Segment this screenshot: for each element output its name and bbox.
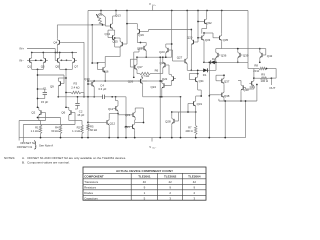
wire Q19 emitter (136, 35, 138, 42)
resistor R4b (59, 125, 62, 134)
transistor Q39 (239, 53, 241, 57)
wire Q19 base (142, 30, 149, 32)
transistor Q11 (115, 106, 117, 110)
wire Q5 emitter (59, 64, 61, 69)
wire Q6 base bus (73, 112, 75, 114)
svg-text:Q33: Q33 (205, 38, 211, 42)
transistor Q26 (140, 79, 142, 83)
transistor Q2 (40, 110, 42, 114)
transistor Q41 (251, 81, 253, 85)
transistor Q3 (45, 58, 47, 62)
wire Q12 emitter (108, 126, 110, 137)
wire mid bus y81 (88, 80, 147, 82)
svg-text:R4: R4 (55, 126, 59, 130)
resistor R9 (260, 77, 268, 80)
wire R4b top (60, 118, 62, 125)
svg-text:Q14: Q14 (105, 32, 111, 36)
svg-text:Q39: Q39 (243, 53, 249, 57)
wire Q20 collector (162, 57, 164, 61)
svg-text:COMPONENT: COMPONENT (84, 174, 104, 178)
wire Q3 top (42, 53, 44, 57)
node rail junction (197, 10, 199, 12)
wire Q35 base (213, 37, 217, 39)
svg-text:R2: R2 (77, 126, 81, 130)
svg-text:Q1: Q1 (27, 64, 31, 68)
node rail junction (126, 10, 128, 12)
wire Q40 collector (240, 81, 242, 84)
wire Q10 base (88, 83, 90, 85)
svg-text:Capacitors: Capacitors (84, 197, 98, 201)
svg-text:Q16: Q16 (103, 69, 109, 73)
resistor R1 (39, 125, 42, 134)
svg-text:IN−: IN− (19, 58, 24, 62)
wire x171 riser (171, 11, 173, 45)
node input dots (35, 59, 37, 61)
svg-text:R1: R1 (35, 126, 39, 130)
svg-text:Q9: Q9 (50, 85, 54, 89)
svg-text:Q38: Q38 (224, 94, 230, 98)
wire Q31 collector (195, 96, 197, 99)
node rail junction (171, 10, 173, 12)
wire offset riser 2 (22, 125, 24, 143)
wire offset brace (34, 140, 36, 149)
wire Q29b emitter (190, 46, 192, 70)
wire offset riser 1 (18, 121, 20, 141)
wire Q29b collector (190, 30, 192, 38)
node OUT (270, 78, 272, 85)
power VCC- label (151, 138, 153, 142)
wire Q15 emitter (119, 48, 121, 52)
node rail junction (115, 10, 117, 12)
wire x126 drop (125, 97, 127, 138)
wire Q18 emitter (145, 52, 147, 57)
node rail junction (221, 10, 223, 12)
svg-text:D1: D1 (203, 73, 207, 77)
svg-text:1: 1 (144, 191, 146, 195)
svg-text:R9: R9 (261, 73, 265, 77)
wire Q5Q7 join (60, 68, 73, 70)
wire Q22 collector (170, 73, 172, 75)
capacitor C4 (102, 95, 104, 99)
wire Q34 loop (189, 79, 193, 81)
svg-text:Q21: Q21 (125, 113, 131, 117)
wire C1 top (44, 89, 46, 91)
svg-text:2.4 kΩ: 2.4 kΩ (71, 86, 79, 90)
wire Q12 collector (108, 114, 110, 119)
wire Q28 base (176, 120, 178, 122)
wire Q23 emitter (165, 54, 167, 57)
wire Q18 base (139, 47, 142, 49)
wire x133 drop (133, 52, 135, 77)
resistor R7 (194, 126, 197, 135)
svg-text:1.1 kΩ: 1.1 kΩ (31, 129, 39, 133)
transistor Q42 (261, 53, 263, 57)
transistor Q4 (59, 40, 61, 44)
wire y63 bus (92, 62, 97, 64)
wire Q1 top (31, 53, 33, 57)
svg-text:R8: R8 (254, 63, 258, 67)
wire Q36 emitter (215, 59, 217, 62)
svg-text:Q37: Q37 (224, 79, 230, 83)
wire bottom box (219, 100, 257, 102)
wire diode bus lower (187, 69, 216, 71)
wire Q41 emitter (253, 87, 255, 89)
wire Q11 collector (117, 101, 119, 105)
wire Q38 emitter (223, 99, 225, 101)
wire Q3 emitter (42, 64, 44, 69)
wire Q9 base (63, 83, 64, 85)
svg-text:R5: R5 (90, 124, 94, 128)
wire Q42 loop (264, 54, 265, 56)
svg-text:2: 2 (194, 191, 196, 195)
wire Q28 collector (171, 112, 173, 117)
wire Q37-Q38 (223, 85, 225, 91)
transistor Q7 (74, 58, 76, 62)
wire Q15 collector (119, 38, 121, 40)
wire Q2 base bus (43, 112, 45, 114)
wire Q33 emitter (203, 42, 205, 63)
wire Q26 emitter (142, 85, 144, 97)
wire Q12 base (88, 121, 105, 123)
wire Q23 base (170, 49, 172, 51)
wire Q19 collector (136, 24, 138, 28)
svg-text:9: 9 (169, 186, 171, 190)
svg-text:TLE2064: TLE2064 (188, 174, 201, 178)
svg-text:R7: R7 (188, 125, 192, 129)
svg-text:CC−: CC− (152, 148, 157, 150)
wire R4 left (66, 92, 71, 94)
wire Q37 collector top (223, 70, 225, 75)
wire VCC- rail (19, 137, 246, 139)
svg-text:Q29: Q29 (187, 36, 193, 40)
transistor Q15 (121, 42, 123, 46)
svg-text:Q17: Q17 (137, 65, 143, 69)
svg-text:Transistors: Transistors (84, 180, 99, 184)
transistor Q21 (132, 113, 134, 117)
svg-text:OFFSET N1: OFFSET N1 (17, 145, 33, 149)
wire R1 top (39, 120, 41, 122)
svg-text:Q22: Q22 (162, 77, 168, 81)
wire diode link (215, 62, 217, 70)
wire Q35 collector (221, 11, 223, 34)
wire Q5 top (59, 53, 61, 57)
wire C1 bottom (44, 97, 46, 99)
wire Q40 base (245, 88, 247, 90)
svg-text:V: V (149, 145, 151, 149)
wire Q28 emitter (171, 125, 173, 138)
wire Q18 collector (145, 43, 147, 44)
transistor Q16 (102, 67, 104, 71)
wire rail left drop (87, 11, 89, 128)
node rail junction (206, 10, 208, 12)
svg-text:Q36: Q36 (221, 53, 227, 57)
transistor Q36 (217, 53, 219, 57)
transistor Q5 (57, 58, 59, 62)
svg-text:9: 9 (144, 186, 146, 190)
transistor Q14 (112, 35, 114, 39)
svg-text:Q34: Q34 (199, 79, 204, 83)
wire Q24 collector (161, 80, 163, 82)
wire R4 right (81, 92, 84, 94)
wire Q23 collector (165, 44, 167, 46)
wire mid bus y57 (137, 56, 172, 58)
wire Q21 base (118, 114, 131, 116)
svg-text:See Note A: See Note A (39, 144, 53, 148)
svg-text:Q24: Q24 (151, 85, 157, 89)
wire Q42 collector (259, 49, 261, 51)
svg-text:IN+: IN+ (20, 46, 25, 50)
wire Q5 Q7 base link (60, 59, 72, 61)
svg-text:B. Component values are nomin: B. Component values are nominal. (22, 161, 70, 165)
diode D1 (203, 68, 207, 72)
wire mid vertical x84 (83, 42, 85, 97)
wire y96 right (143, 96, 181, 98)
wire Q20 emitter (162, 69, 164, 73)
wire Q35 emitter (221, 42, 223, 49)
svg-text:Q28: Q28 (165, 119, 171, 123)
wire Q41 collector (253, 69, 255, 80)
wire R8 out (267, 68, 277, 70)
svg-text:9: 9 (194, 186, 196, 190)
wire Q17 loop (130, 66, 132, 68)
svg-text:Q41: Q41 (250, 85, 256, 89)
wire Q39 emitter (237, 59, 239, 62)
wire Q33 base (198, 37, 199, 39)
wire Q32 collector (206, 11, 208, 18)
wire Q32 emitter (206, 26, 208, 29)
wire Q21Q25 link (134, 119, 137, 121)
wire Q4 base run (62, 41, 84, 43)
wire Q25 emitter (134, 131, 136, 138)
svg-text:Q10: Q10 (84, 77, 90, 81)
wire Q33 collector (203, 33, 205, 35)
wire VCC+ rail (88, 10, 248, 12)
transistor Q6 (70, 110, 72, 114)
wire Q42 emitter (259, 59, 261, 62)
wire Q38 base2 (208, 95, 210, 96)
transistor Q25 (132, 125, 134, 129)
svg-text:Q31: Q31 (197, 102, 203, 106)
svg-text:2: 2 (169, 191, 171, 195)
wire R9 left (254, 77, 260, 79)
table component count (83, 167, 206, 200)
svg-text:ACTUAL DEVICE COMPONENT COUNT: ACTUAL DEVICE COMPONENT COUNT (116, 169, 173, 173)
wire Q16 emitter (104, 74, 106, 81)
resistor R5 (87, 124, 90, 131)
svg-text:60 kΩ: 60 kΩ (51, 129, 58, 133)
transistor Q31 (193, 101, 195, 105)
wire Q40 emitter (240, 92, 242, 101)
transistor Q38 (221, 93, 223, 97)
resistor R3 (71, 91, 81, 94)
transistor Q32 (204, 19, 206, 23)
wire Q28 bus (172, 111, 196, 113)
wire Q6 emitter (68, 117, 70, 121)
wire Q8 right link (104, 17, 106, 25)
svg-text:Q27: Q27 (177, 55, 183, 59)
wire Q11 emitter (117, 112, 119, 137)
svg-text:Q6: Q6 (61, 111, 65, 115)
wire x209 drop (208, 62, 210, 137)
svg-text:D2: D2 (212, 57, 216, 61)
wire R6 right (151, 73, 163, 75)
wire x180 drop (180, 97, 182, 138)
resistor R6 (140, 72, 151, 75)
wire R8 feed (247, 62, 249, 68)
wire Q17 emitter (136, 71, 138, 73)
wire collector bus (32, 52, 77, 54)
transistor Q17 (134, 65, 136, 69)
wire Q16 loop (98, 69, 101, 71)
wire Q27 collector (186, 11, 188, 57)
svg-text:Q11: Q11 (108, 107, 114, 111)
wire Q31 emitter (195, 108, 197, 126)
wire x160 drop (159, 57, 161, 137)
transistor Q1 (29, 58, 31, 62)
wire Q24 emitter (161, 90, 163, 97)
transistor Q10 (91, 82, 93, 86)
wire Q16 up (104, 57, 106, 63)
svg-text:20 Ω: 20 Ω (253, 69, 259, 73)
wire Q39 collector (237, 49, 239, 51)
svg-text:Q3: Q3 (41, 64, 45, 68)
transistor Q18 (143, 46, 145, 50)
wire Q20 base (167, 64, 169, 66)
svg-text:Resistors: Resistors (84, 186, 96, 190)
wire Q15 base (125, 43, 127, 45)
svg-text:60 kΩ: 60 kΩ (90, 128, 97, 132)
capacitor C2 (77, 97, 79, 103)
wire Q14 emitter (114, 42, 116, 47)
wire Q17 collector (136, 57, 138, 59)
wire top out bus (217, 48, 248, 50)
node rail junction (100, 10, 102, 12)
wire Q6 collector (68, 107, 70, 108)
svg-text:Q15: Q15 (112, 39, 118, 43)
wire Q21 collector (134, 108, 136, 111)
wire diode bus upper (209, 61, 248, 63)
wire Q31 base (188, 103, 191, 105)
transistor Q22 (173, 76, 175, 80)
wire mid vertical x92 (91, 25, 93, 63)
svg-text:Q42: Q42 (267, 54, 273, 58)
svg-text:Q23: Q23 (159, 50, 165, 54)
transistor Q33 (201, 36, 203, 40)
svg-text:NOTES:: NOTES: (4, 156, 15, 160)
wire Q2 collector (38, 107, 40, 108)
wire IN+ riser (54, 49, 56, 61)
svg-text:Q2: Q2 (31, 111, 35, 115)
wire x225 drop (224, 101, 226, 138)
svg-text:Diodes: Diodes (84, 191, 93, 195)
wire Q4 collector (56, 25, 58, 38)
svg-text:TLE2061: TLE2061 (138, 174, 151, 178)
resistor R8 (259, 67, 267, 70)
svg-text:Q12: Q12 (110, 122, 116, 126)
transistor Q13 (110, 24, 112, 28)
svg-text:Q19: Q19 (138, 33, 144, 37)
transistor Q19 (139, 29, 141, 33)
svg-text:400 Ω: 400 Ω (185, 129, 192, 133)
wire Q25 collector (135, 122, 144, 124)
wire mid bus y96 (58, 96, 102, 98)
wire Q10 collector (93, 80, 95, 81)
transistor Q28 (173, 119, 175, 123)
svg-text:TLE2062: TLE2062 (164, 174, 177, 178)
svg-text:Q7: Q7 (74, 64, 78, 68)
wire Q9 emitter (57, 88, 59, 97)
wire Q36 collector (215, 49, 217, 51)
wire Q4 emitter (56, 46, 58, 52)
wire Q10 emitter (93, 88, 95, 97)
diode D2 (211, 60, 215, 64)
svg-text:R3: R3 (74, 81, 78, 85)
svg-text:V: V (149, 2, 151, 6)
svg-text:42: 42 (169, 180, 173, 184)
svg-text:42: 42 (193, 180, 197, 184)
transistor Q35 (219, 36, 221, 40)
transistor Q40 (242, 85, 244, 89)
svg-text:Q4: Q4 (53, 40, 57, 44)
svg-text:A. OFFSET N1 AND OFFSET N2 ar: A. OFFSET N1 AND OFFSET N2 are only avai… (22, 156, 126, 160)
wire x171 riser b (171, 44, 173, 57)
svg-text:R6: R6 (155, 69, 159, 73)
wire Q34 emitter (197, 84, 199, 90)
wire Q21 emitter (134, 119, 136, 120)
wire Q38 base (209, 94, 219, 96)
wire rail right drop (247, 11, 249, 63)
wire C4 right (104, 96, 126, 98)
wire Q27 base (173, 60, 183, 62)
transistor Q37 (221, 79, 223, 83)
transistor Q34 (195, 77, 197, 81)
transistor Q27 (184, 59, 186, 63)
transistor Q23 (167, 48, 169, 52)
svg-text:3.3 μF: 3.3 μF (98, 87, 106, 91)
wire Q22 emitter (170, 83, 172, 86)
svg-text:15 pF: 15 pF (41, 100, 48, 104)
wire Q4 top run (59, 24, 93, 26)
transistor Q9 (60, 81, 62, 85)
transistor Q24 (163, 83, 165, 87)
svg-text:Q5: Q5 (55, 64, 59, 68)
capacitor C1 (44, 91, 46, 93)
svg-text:Q35: Q35 (223, 38, 229, 42)
svg-text:Q32: Q32 (206, 21, 212, 25)
wire Q2 emitter (38, 117, 40, 121)
wire Q25 base (126, 126, 130, 128)
wire Q32 base (198, 21, 202, 23)
svg-text:Q18: Q18 (137, 46, 143, 50)
wire Q26 collector (142, 76, 144, 78)
svg-text:15 pF: 15 pF (77, 113, 84, 117)
wire Q1 emitter (31, 64, 33, 69)
svg-text:Q26: Q26 (128, 79, 134, 83)
wire Q13 collector (112, 16, 114, 22)
wire Q7 emitter (71, 64, 73, 69)
node rail junction (186, 10, 188, 12)
wire R2 top (69, 120, 82, 122)
wire x245 drop (245, 101, 247, 138)
wire R9 right (268, 77, 272, 79)
wire Q34 collector (197, 70, 199, 73)
svg-text:100 Ω: 100 Ω (261, 79, 269, 83)
wire Q8 bottom run (92, 24, 105, 26)
wire Q27 emitter (186, 65, 188, 70)
node Q5Q7 dots (61, 59, 63, 61)
wire Q37 loop (216, 80, 219, 82)
svg-text:1.1 kΩ: 1.1 kΩ (72, 129, 80, 133)
